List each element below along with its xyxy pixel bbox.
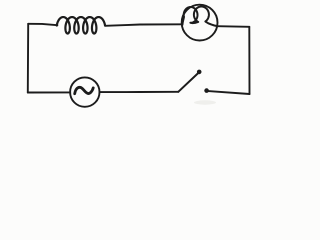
- switch pivot dot (top of blade): [197, 70, 202, 75]
- wire: coil to lamp: [105, 24, 182, 26]
- wire: top-left horizontal: [28, 24, 57, 25]
- wire: bottom-left (corner to AC source): [28, 91, 70, 93]
- switch arm (open blade): [178, 73, 199, 92]
- wire: AC source to switch: [99, 91, 178, 93]
- wire: bottom-right (corner to switch contact): [208, 91, 249, 94]
- wire: left vertical: [27, 24, 29, 93]
- faint print-through smudge (background artifact): [194, 100, 216, 104]
- wire: right vertical: [248, 27, 250, 94]
- lamp (circle): [182, 5, 218, 41]
- lamp filament (double loop): [182, 7, 217, 27]
- switch contact dot (right): [204, 88, 209, 93]
- ac source (circle): [70, 77, 99, 106]
- ac source sine symbol: [75, 87, 94, 93]
- wire: lamp to top-right corner: [217, 25, 249, 28]
- inductor L (coil, 4 loops): [57, 17, 105, 34]
